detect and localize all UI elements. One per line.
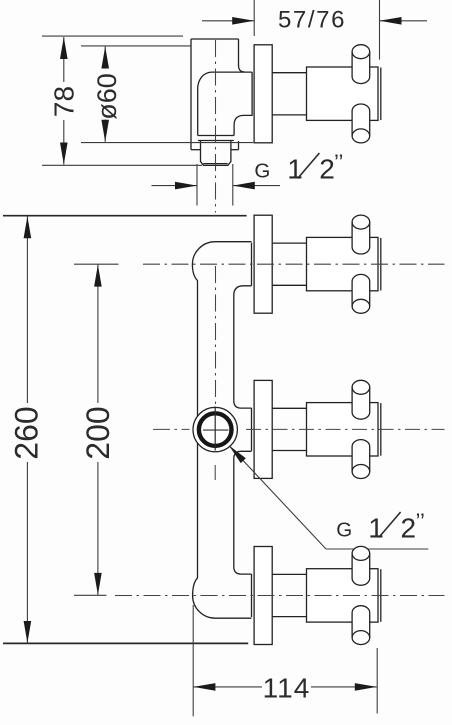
dim 200 dimension line + arrows xyxy=(97,265,99,403)
svg-text:ø60: ø60 xyxy=(92,73,122,120)
leader line to G 1/2 label xyxy=(230,446,429,549)
top view: valve body housing box xyxy=(191,38,239,40)
wall mounting line (lower) xyxy=(3,642,248,644)
G 1/2 inlet port threaded bore (bold ring) xyxy=(199,413,232,446)
port crosshair vertical xyxy=(214,407,216,451)
centerline valve 2 xyxy=(153,428,190,430)
valve 3 wall flange (escutcheon ø60) xyxy=(254,547,272,645)
valve 1 stem housing top edge xyxy=(272,242,306,244)
svg-text:G: G xyxy=(336,518,352,541)
main view: supply pipe + top and bottom elbows outer contour xyxy=(192,242,251,619)
dim 200 lower extension line xyxy=(74,594,107,596)
valve 3 pipe end face xyxy=(251,574,253,617)
top view: G1/2 male thread nipple xyxy=(198,140,234,142)
valve 1 handle upper lobe xyxy=(352,215,370,254)
valve T handle body xyxy=(307,67,379,120)
svg-text:1: 1 xyxy=(287,153,303,184)
dim G 1/2 thread: left arrow xyxy=(152,185,198,187)
svg-text:’’: ’’ xyxy=(334,150,343,175)
valve T handle lower lobe xyxy=(352,104,370,143)
top view: elbow waterway inner step xyxy=(234,72,252,135)
valve 3 handle body xyxy=(307,569,379,622)
valve 2 stem housing bottom edge xyxy=(272,450,306,452)
svg-text:260: 260 xyxy=(9,406,45,459)
vertical centerline top view xyxy=(215,40,217,213)
top view: elbow waterway outer curve xyxy=(198,72,252,135)
dim 260 dimension line + arrows xyxy=(26,216,28,403)
valve 1 wall flange (escutcheon ø60) xyxy=(254,215,272,313)
dim G 1/2 thread: left extension xyxy=(196,164,198,206)
dim 57/76 left extension line xyxy=(253,0,255,36)
dim 57/76 right extension line xyxy=(379,0,381,60)
top view: housing-to-neck fillet xyxy=(239,66,245,72)
G 1/2 inlet port outer circle xyxy=(193,407,237,451)
valve T handle end cap xyxy=(380,68,382,121)
svg-text:78: 78 xyxy=(49,86,80,117)
centerline valve 3 xyxy=(115,595,445,597)
valve 3 stem housing bottom edge xyxy=(272,616,306,618)
dim 114 dimension line + arrows xyxy=(193,686,262,688)
valve T wall flange (escutcheon ø60) xyxy=(254,45,272,143)
valve 2 handle body xyxy=(307,403,379,456)
valve 3 handle upper lobe xyxy=(352,546,370,585)
valve 2 pipe end face xyxy=(251,408,253,451)
svg-text:2: 2 xyxy=(319,153,335,184)
dim ø60 dimension line + arrows xyxy=(104,47,106,67)
dim 114 right extension line xyxy=(376,648,378,714)
dim ø60 lower extension line xyxy=(81,142,253,144)
svg-text:2: 2 xyxy=(401,512,417,543)
dim 78 dimension line + arrows xyxy=(63,37,65,82)
valve 1 stem housing bottom edge xyxy=(272,284,306,286)
dim 200 upper extension line xyxy=(74,263,119,265)
valve 2 stem housing top edge xyxy=(272,407,306,409)
top view: thread shoulder line xyxy=(198,135,234,137)
dim 78 lower extension line xyxy=(42,164,202,166)
main view: pipe inner edge with middle tee branch xyxy=(234,286,252,408)
valve 1 pipe end face xyxy=(251,243,253,286)
dim 114 left extension line xyxy=(192,605,194,716)
valve 3 handle lower lobe xyxy=(352,606,370,645)
valve 2 wall flange (escutcheon ø60) xyxy=(254,380,272,478)
dim ø60 upper extension line xyxy=(81,45,191,47)
svg-text:’’: ’’ xyxy=(416,509,425,534)
valve T stem housing top edge xyxy=(272,72,306,74)
port crosshair horizontal xyxy=(203,429,229,431)
svg-text:114: 114 xyxy=(263,673,311,704)
valve 3 stem housing top edge xyxy=(272,573,306,575)
svg-text:200: 200 xyxy=(80,406,116,459)
valve 1 handle lower lobe xyxy=(352,274,370,313)
valve 3 handle end cap xyxy=(380,569,382,622)
vertical centerline main view xyxy=(215,266,217,405)
valve 2 handle upper lobe xyxy=(352,380,370,419)
svg-text:57/76: 57/76 xyxy=(278,6,346,33)
centerline valve 1 xyxy=(143,263,445,265)
dim G 1/2 thread: right extension xyxy=(232,164,234,206)
dim 57/76 right arrow xyxy=(380,20,428,22)
dim 57/76 left arrow xyxy=(202,20,254,22)
valve T stem housing bottom edge xyxy=(272,114,306,116)
wall mounting line (upper) xyxy=(3,215,247,217)
valve 2 handle end cap xyxy=(380,403,382,456)
valve 1 handle body xyxy=(307,237,379,290)
svg-text:G: G xyxy=(254,159,270,182)
valve T handle upper lobe xyxy=(352,45,370,84)
dim G 1/2 thread: right arrow xyxy=(233,185,280,187)
dim 78 upper extension line xyxy=(42,35,183,37)
svg-text:1: 1 xyxy=(368,512,384,543)
valve 2 handle lower lobe xyxy=(352,440,370,479)
valve 1 handle end cap xyxy=(380,238,382,291)
